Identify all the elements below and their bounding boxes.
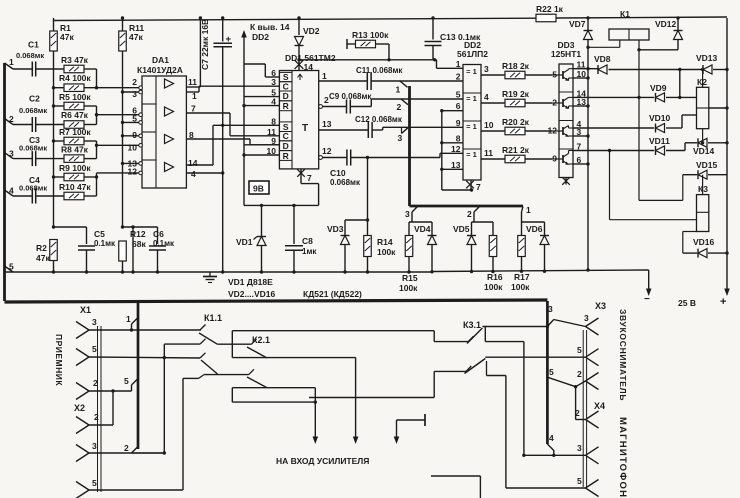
wire pin 6 stub: [573, 163, 588, 165]
wire rail bottom: [442, 189, 472, 191]
svg-text:4: 4: [271, 97, 276, 107]
wire rail to DD1 pin4: [244, 105, 279, 107]
node 3: [5, 153, 14, 159]
svg-text:VD11: VD11: [649, 136, 670, 146]
svg-text:VD2: VD2: [303, 26, 320, 36]
svg-text:1: 1: [192, 91, 197, 101]
svg-text:2: 2: [9, 114, 14, 124]
node 5 bus entry: [132, 379, 139, 386]
pin 14 DA1 output: [186, 164, 213, 166]
zener VD1: [260, 204, 263, 207]
svg-text:D: D: [283, 141, 289, 151]
wire common 0V row: [5, 271, 434, 273]
svg-text:VD3: VD3: [327, 224, 344, 234]
diode VD11: [656, 146, 665, 155]
svg-text:−: −: [644, 294, 650, 305]
wire K1 coil to transistors: [638, 40, 640, 200]
svg-text:0.068мк: 0.068мк: [19, 184, 47, 193]
svg-text:R9 100к: R9 100к: [59, 163, 91, 173]
svg-text:100к: 100к: [511, 282, 530, 292]
svg-text:7: 7: [476, 182, 481, 192]
svg-text:5: 5: [92, 344, 97, 354]
node 1 bus exit: [522, 207, 524, 213]
wire node1 drop: [521, 212, 523, 222]
capacitor C12: [367, 122, 369, 138]
wire R11 col to DA1 pin5: [123, 121, 141, 123]
wire K3 lower tap from DD3 pin7: [609, 151, 611, 220]
capacitor C1: [13, 68, 32, 70]
pin 11 DA1 supply: [186, 86, 200, 88]
transistor Q1 DD3: [552, 74, 563, 76]
wire R11 col to DA1 pin3: [123, 91, 141, 93]
svg-text:+: +: [720, 296, 726, 308]
svg-text:DA1: DA1: [152, 55, 169, 65]
svg-text:5: 5: [456, 90, 461, 100]
svg-text:100к: 100к: [399, 283, 418, 293]
svg-text:3: 3: [92, 317, 97, 327]
wire 9V rail: [243, 52, 245, 205]
svg-text:14: 14: [188, 158, 198, 168]
pin 12 DD1 output: [319, 156, 323, 160]
svg-text:68к: 68к: [132, 239, 146, 249]
svg-text:12: 12: [128, 167, 138, 177]
svg-text:C2: C2: [29, 94, 40, 104]
resistor R13: [346, 39, 348, 49]
svg-text:VD9: VD9: [650, 83, 667, 93]
diode VD15: [683, 174, 697, 176]
resistor R15: [408, 222, 410, 236]
wire R3-R4 junction: [84, 68, 97, 70]
wire K2.1 out1 to amplifier: [232, 357, 355, 359]
svg-text:8: 8: [456, 133, 461, 143]
svg-text:0.068мк: 0.068мк: [19, 144, 47, 153]
wire K3.1 pole1 feed: [433, 331, 435, 342]
relay contact K1.1 pole2 arm: [201, 360, 218, 374]
svg-text:5: 5: [577, 476, 582, 486]
svg-text:R2: R2: [36, 243, 47, 253]
wire bus bottom horizontal: [5, 300, 548, 302]
wire rail to DD1 pin10: [244, 154, 279, 156]
svg-text:9: 9: [132, 130, 137, 140]
wire DA1 out1 to DD1 pin3: [199, 85, 279, 87]
node 5 bus entry right: [547, 377, 575, 387]
svg-text:C5: C5: [94, 229, 105, 239]
resistor R2: [52, 225, 55, 228]
svg-text:К3.1: К3.1: [463, 320, 481, 330]
wire pin 10 stub: [573, 77, 588, 79]
pin 3 DA1: [139, 90, 143, 94]
capacitor C8: [292, 204, 295, 207]
svg-text:47к: 47к: [36, 253, 50, 263]
svg-text:5: 5: [132, 114, 137, 124]
svg-text:Т: Т: [302, 123, 308, 134]
wire bus left branch: [137, 301, 140, 449]
wire to DA1 pin12: [97, 172, 141, 174]
pin 2 DA1: [139, 86, 143, 90]
wire K1 coil bottom to VD15: [639, 199, 683, 201]
svg-text:С8: С8: [302, 236, 313, 246]
pin 2 X1: [76, 383, 89, 392]
svg-text:R: R: [283, 151, 289, 161]
pin 1 DA1 output: [186, 91, 199, 93]
svg-text:12: 12: [451, 144, 461, 154]
pin 7 DD2: [470, 180, 472, 190]
svg-text:ПРИЕМНИК: ПРИЕМНИК: [54, 334, 64, 386]
svg-text:VD4: VD4: [414, 224, 431, 234]
resistor R8: [64, 155, 84, 163]
wire pin 13 stub: [573, 105, 588, 107]
pin 2 DD1 output: [319, 105, 323, 109]
wire K2 mid tap: [709, 107, 727, 109]
svg-text:R6 47к: R6 47к: [61, 110, 89, 120]
svg-text:11: 11: [188, 77, 197, 87]
wire R7-R8 junction: [84, 140, 97, 142]
svg-text:0.068мк: 0.068мк: [16, 51, 44, 60]
svg-text:3: 3: [548, 304, 553, 314]
wire C12 step to DD2 pin9: [382, 127, 384, 130]
diode VD14: [685, 142, 697, 144]
svg-text:X4: X4: [594, 401, 605, 411]
resistor R12: [121, 225, 124, 228]
pin 2 X2: [76, 417, 89, 426]
svg-text:C: C: [283, 81, 289, 91]
pin 8 DA1 output: [186, 138, 250, 140]
wire R11 col to DA1 pin13: [123, 162, 141, 164]
wire rail to DD1 pin5: [244, 96, 279, 98]
capacitor C5: [54, 226, 87, 228]
node 5: [5, 266, 14, 272]
svg-text:R19 2к: R19 2к: [502, 89, 530, 99]
svg-text:C1: C1: [28, 40, 39, 50]
wire cable shield left: [97, 326, 99, 492]
svg-text:5: 5: [549, 367, 554, 377]
svg-text:4: 4: [191, 169, 196, 179]
wire ground stub right: [431, 475, 480, 477]
svg-text:4: 4: [484, 92, 489, 102]
node 2 bus exit: [474, 206, 480, 212]
svg-text:10: 10: [128, 143, 138, 153]
resistor R9: [64, 173, 84, 181]
svg-text:R13 100к: R13 100к: [352, 30, 389, 40]
wire R5 left: [54, 105, 65, 107]
svg-text:100к: 100к: [484, 282, 503, 292]
svg-text:R21 2к: R21 2к: [502, 145, 530, 155]
svg-text:2: 2: [467, 209, 472, 219]
wire X1.5 X2.3 riser: [163, 344, 165, 453]
wire node3 drop: [411, 212, 413, 222]
svg-text:3: 3: [92, 441, 97, 451]
node 4 bus entry right: [547, 444, 553, 455]
svg-text:5: 5: [92, 478, 97, 488]
wire bus left vertical: [3, 63, 6, 301]
svg-text:3: 3: [484, 64, 489, 74]
resistor R14: [367, 220, 369, 236]
svg-text:2: 2: [94, 412, 99, 422]
wire to DD2 pin12: [439, 153, 441, 157]
svg-text:7: 7: [191, 104, 196, 114]
wire VD3 R14 junction: [345, 219, 368, 221]
svg-text:VD16: VD16: [693, 237, 715, 247]
diode VD5: [471, 222, 473, 235]
terminal to amplifier 3: [397, 419, 426, 421]
svg-text:R14: R14: [377, 237, 393, 247]
svg-text:R8 47к: R8 47к: [61, 145, 89, 155]
resistor R11: [122, 18, 124, 31]
pin 2 X4: [586, 411, 599, 420]
wire node2 drop: [473, 212, 475, 222]
svg-text:R15: R15: [402, 273, 418, 283]
pin 8 DD3: [562, 177, 570, 185]
pin 5 X3: [586, 349, 599, 358]
wire VD2 node to C13: [297, 58, 300, 61]
svg-text:R3 47к: R3 47к: [61, 55, 89, 65]
capacitor C2: [13, 124, 32, 126]
pin 3 DD2 output: [481, 74, 505, 76]
svg-text:13: 13: [451, 160, 461, 170]
svg-text:2: 2: [397, 102, 402, 112]
svg-text:13: 13: [322, 119, 332, 129]
svg-text:VD13: VD13: [696, 53, 718, 63]
resistor R5: [64, 102, 84, 110]
wire C10 node down: [367, 158, 369, 221]
svg-text:3: 3: [271, 77, 276, 87]
svg-text:VD10: VD10: [649, 113, 671, 123]
diode VD10: [656, 124, 665, 133]
svg-text:2: 2: [124, 443, 129, 453]
wire to pin 14 DD2 arrow: [243, 36, 245, 52]
wire R7 left: [54, 140, 65, 142]
pin 4 DD2 output: [481, 102, 505, 104]
diode VD16: [683, 231, 697, 233]
node 2 bus entry: [132, 447, 139, 454]
svg-text:12: 12: [322, 146, 332, 156]
terminal to amplifier 2: [355, 357, 357, 439]
svg-text:К выв. 14: К выв. 14: [250, 22, 290, 32]
wire pin 3 stub: [573, 135, 588, 137]
wire K3.1 throw1b to X4.3: [484, 327, 486, 342]
svg-text:VD7: VD7: [569, 19, 586, 29]
svg-text:= 1: = 1: [466, 94, 477, 103]
diode VD12: [676, 16, 679, 19]
pin 3 X4: [586, 447, 599, 456]
resistor R22: [536, 14, 556, 22]
wire R9 left: [54, 176, 65, 178]
wire K3.1 throw2b to X4.5: [486, 357, 488, 375]
wire R4 left: [54, 87, 65, 89]
wire transistor row 4: [573, 150, 654, 152]
svg-text:R18 2к: R18 2к: [502, 61, 530, 71]
svg-text:R4 100к: R4 100к: [59, 73, 91, 83]
diode VD13: [703, 65, 712, 74]
node 3 bus entry: [402, 128, 409, 134]
pin 10 DA1: [139, 144, 143, 148]
wire pin 11 row: [573, 68, 599, 70]
resistor R3: [64, 65, 84, 73]
label 9В: [249, 181, 269, 194]
wire R5-R6 junction: [84, 105, 97, 107]
svg-text:8: 8: [189, 130, 194, 140]
svg-text:R16: R16: [487, 272, 503, 282]
pin 14 DD1: [298, 58, 300, 71]
svg-text:X1: X1: [80, 305, 91, 315]
wire to X3.2: [576, 381, 586, 387]
pin 3 X1: [76, 322, 89, 331]
svg-text:9: 9: [552, 154, 557, 164]
svg-text:1: 1: [9, 57, 14, 67]
wire to K3.1 pole2: [309, 397, 434, 399]
svg-text:VD8: VD8: [594, 54, 611, 64]
wire bus branch horizontal: [410, 205, 524, 208]
svg-text:100к: 100к: [377, 247, 396, 257]
wire R11 col to DA1 pin9: [123, 135, 141, 137]
resistor R1: [53, 18, 55, 31]
wire rail to DD1 pin6: [244, 63, 265, 65]
svg-text:5: 5: [552, 70, 557, 80]
svg-text:11: 11: [484, 148, 493, 158]
wire bus branch vertical: [408, 86, 411, 206]
svg-text:ЗВУКОСНИМАТЕЛЬ: ЗВУКОСНИМАТЕЛЬ: [618, 309, 628, 401]
capacitor C11: [366, 72, 368, 90]
svg-text:1: 1: [126, 314, 131, 324]
svg-text:C11 0.068мк: C11 0.068мк: [356, 66, 403, 75]
pin 5 X1: [76, 349, 89, 358]
svg-text:2: 2: [456, 72, 461, 82]
svg-text:5: 5: [577, 345, 582, 355]
svg-text:R20 2к: R20 2к: [502, 117, 530, 127]
svg-text:9: 9: [456, 118, 461, 128]
svg-text:2: 2: [577, 369, 582, 379]
svg-text:X3: X3: [595, 301, 606, 311]
ground: [209, 272, 211, 276]
resistor R18: [505, 71, 525, 79]
resistor R6: [64, 121, 84, 129]
svg-text:НА ВХОД УСИЛИТЕЛЯ: НА ВХОД УСИЛИТЕЛЯ: [276, 456, 369, 466]
svg-text:8: 8: [271, 116, 276, 126]
svg-text:47к: 47к: [60, 32, 74, 42]
resistor R17: [521, 222, 523, 236]
svg-text:125НТ1: 125НТ1: [551, 49, 582, 59]
pin 4 DA1 supply minus: [186, 172, 222, 174]
wire C13 to DD2 pin1: [436, 60, 438, 69]
pin 3 X3: [586, 318, 599, 327]
wire R9-R10 junction: [84, 176, 97, 178]
node 3 bus exit: [412, 206, 418, 212]
pin 11 DD2 output: [481, 158, 505, 160]
pin 1 DD1 output: [319, 80, 368, 82]
wire top supply rail: [53, 18, 536, 20]
svg-text:0.068мк: 0.068мк: [19, 106, 47, 115]
svg-text:0.068мк: 0.068мк: [330, 178, 361, 187]
node 1 bus entry: [132, 318, 139, 325]
svg-text:10: 10: [267, 146, 277, 156]
diode VD4: [431, 222, 433, 235]
capacitor C4: [13, 195, 32, 197]
capacitor C9: [346, 100, 348, 114]
svg-text:VD6: VD6: [526, 224, 543, 234]
capacitor C3: [13, 158, 32, 160]
svg-text:VD1: VD1: [236, 237, 253, 247]
pin 5 X2: [76, 482, 89, 491]
wire 9V node row: [244, 204, 319, 206]
diode VD3: [344, 220, 346, 235]
wire transistor row 3: [573, 127, 654, 129]
capacitor C10: [346, 150, 348, 166]
svg-text:6: 6: [456, 101, 461, 111]
wire to DA1 pin2: [97, 87, 141, 89]
pin 13 DD1 output: [319, 129, 369, 131]
wire transistor row 2: [573, 96, 654, 98]
pin 12 DA1: [139, 171, 143, 175]
wire bus right branch: [546, 301, 549, 444]
svg-text:VD1 Д818Е: VD1 Д818Е: [228, 277, 273, 287]
wire to X4.2: [575, 387, 577, 420]
resistor R19: [505, 99, 525, 107]
resistor R16: [492, 222, 494, 236]
node 4: [5, 190, 14, 196]
svg-text:2: 2: [552, 98, 557, 108]
resistor R7: [64, 137, 84, 145]
svg-text:25 В: 25 В: [678, 298, 696, 308]
pin 13 DA1: [139, 162, 143, 166]
relay contact K2.1 pole2 arm: [247, 377, 267, 388]
node 1: [5, 63, 14, 69]
svg-text:R7 100к: R7 100к: [59, 127, 91, 137]
terminal to amplifier 1: [314, 388, 316, 439]
svg-text:0.1мк: 0.1мк: [153, 239, 175, 248]
svg-text:D: D: [283, 91, 289, 101]
node 2 bus entry: [401, 99, 408, 105]
svg-text:3: 3: [405, 209, 410, 219]
pin 5 X4: [586, 480, 599, 489]
resistor R21: [505, 155, 525, 163]
svg-text:4: 4: [549, 433, 554, 443]
svg-text:+: +: [226, 34, 232, 45]
svg-text:C10: C10: [330, 168, 346, 178]
svg-text:5: 5: [9, 262, 14, 272]
svg-text:VD12: VD12: [655, 19, 677, 29]
svg-text:VD5: VD5: [453, 224, 470, 234]
svg-text:= 1: = 1: [466, 67, 477, 76]
wire DD1 pin7 to 9V node: [301, 183, 319, 185]
svg-text:МАГНИТОФОН: МАГНИТОФОН: [617, 417, 628, 498]
svg-text:R17: R17: [514, 272, 530, 282]
diode VD7: [586, 16, 589, 19]
resistor R10: [64, 192, 84, 200]
wire DD2 ground rail pins 6 8 13: [441, 111, 443, 190]
wire C9 step to DD2 pin5: [370, 99, 372, 107]
node 3 bus entry right: [547, 320, 553, 327]
diode VD2: [297, 16, 300, 19]
svg-text:C12 0.068мк: C12 0.068мк: [355, 115, 403, 124]
svg-text:0.1мк: 0.1мк: [94, 239, 116, 248]
wire R12 second leg: [132, 227, 134, 272]
pin 9 DA1: [139, 134, 143, 138]
wire cable shield right: [582, 330, 584, 487]
pin 6 DA1: [139, 113, 143, 117]
svg-text:К1401УД2А: К1401УД2А: [137, 65, 183, 75]
transistor Q2 DD3: [552, 102, 563, 104]
svg-text:9: 9: [271, 136, 276, 146]
svg-text:= 1: = 1: [466, 122, 477, 131]
svg-text:2: 2: [132, 77, 137, 87]
svg-text:КД521 (КД522): КД521 (КД522): [303, 289, 362, 299]
wire DD3 common rail: [586, 268, 589, 271]
svg-text:DD2: DD2: [252, 32, 269, 42]
svg-text:R10 47к: R10 47к: [59, 182, 91, 192]
svg-text:1мк: 1мк: [302, 247, 317, 256]
transistor Q4 DD3: [552, 158, 563, 160]
diode VD9: [656, 93, 665, 102]
